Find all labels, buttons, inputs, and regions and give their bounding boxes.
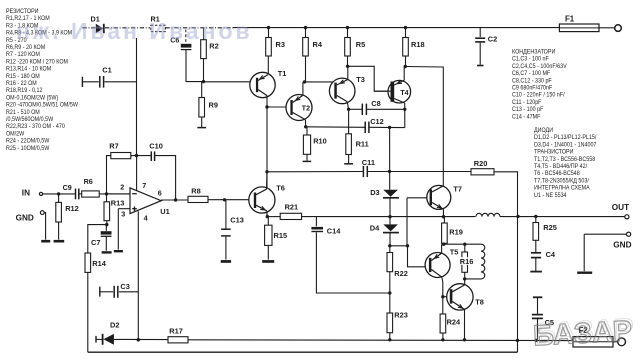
svg-text:R15: R15 (274, 231, 288, 240)
svg-text:D4: D4 (370, 224, 380, 233)
svg-text:/0,5W/560ОМ/0,5W: /0,5W/560ОМ/0,5W (6, 117, 54, 123)
svg-text:C8,C12 - 330 pF: C8,C12 - 330 pF (512, 78, 552, 84)
svg-text:R23: R23 (394, 311, 408, 320)
svg-text:C13 - 100 pF: C13 - 100 pF (512, 107, 544, 113)
svg-text:C10: C10 (149, 141, 163, 150)
svg-text:D3: D3 (370, 188, 379, 197)
svg-text:C3: C3 (120, 282, 129, 291)
svg-text:ИНТЕГРАЛНА СХЕМА: ИНТЕГРАЛНА СХЕМА (534, 185, 590, 191)
svg-text:нж. Иван Иванов: нж. Иван Иванов (16, 18, 253, 44)
svg-text:C11 - 120pF: C11 - 120pF (512, 100, 542, 106)
svg-text:GND: GND (16, 213, 34, 222)
svg-text:R5: R5 (356, 40, 365, 49)
svg-text:ОМ-0,16ОМ/2W (5W): ОМ-0,16ОМ/2W (5W) (6, 95, 58, 101)
svg-text:C7: C7 (91, 238, 100, 247)
svg-text:R18: R18 (411, 40, 425, 49)
svg-text:R25: R25 (543, 223, 557, 232)
svg-text:R22,R23 - 370 ОМ - 470: R22,R23 - 370 ОМ - 470 (6, 124, 65, 130)
svg-text:C14 - 47MF: C14 - 47MF (512, 114, 541, 120)
svg-text:C6,C7 - 100 MF: C6,C7 - 100 MF (512, 71, 551, 77)
svg-text:КОНДЕНЗАТОРИ: КОНДЕНЗАТОРИ (512, 49, 555, 55)
svg-text:R11: R11 (356, 139, 369, 148)
svg-text:РЕЗИСТОРИ: РЕЗИСТОРИ (6, 9, 39, 15)
svg-text:C1,C3 - 100 nF: C1,C3 - 100 nF (512, 56, 549, 62)
svg-text:7: 7 (142, 181, 146, 190)
svg-text:R3: R3 (276, 40, 285, 49)
svg-text:C4: C4 (546, 250, 556, 259)
svg-text:C11: C11 (362, 158, 375, 167)
svg-text:R12: R12 (65, 204, 79, 213)
svg-text:ДИОДИ: ДИОДИ (534, 128, 553, 134)
svg-text:T6: T6 (276, 183, 285, 192)
svg-text:R24: R24 (447, 318, 461, 327)
svg-text:T1: T1 (278, 69, 287, 78)
svg-text:T7: T7 (453, 184, 462, 193)
svg-text:R19: R19 (449, 228, 463, 237)
svg-text:ОМ/2W: ОМ/2W (6, 131, 25, 137)
svg-text:R6,R9 - 20 КОМ: R6,R9 - 20 КОМ (6, 45, 45, 51)
svg-text:C10 - 220nF / 150 nF/: C10 - 220nF / 150 nF/ (512, 92, 565, 98)
svg-text:T1,T2,T3 - BC556-BC558: T1,T2,T3 - BC556-BC558 (534, 156, 596, 162)
svg-text:БАЗАР: БАЗАР (534, 313, 635, 350)
svg-text:R25 - 10ОМ/0,5W: R25 - 10ОМ/0,5W (6, 145, 50, 151)
svg-text:R8: R8 (191, 186, 200, 195)
svg-text:C2: C2 (488, 34, 497, 43)
svg-text:C9 680nF/470nF: C9 680nF/470nF (512, 85, 553, 91)
svg-text:R13: R13 (111, 198, 125, 207)
svg-text:R20 -470ОМ/0,5W/51 ОМ/5W: R20 -470ОМ/0,5W/51 ОМ/5W (6, 102, 78, 108)
svg-text:C8: C8 (371, 99, 380, 108)
svg-text:IN: IN (22, 188, 30, 197)
svg-text:T2: T2 (302, 106, 310, 113)
svg-text:R9: R9 (209, 101, 218, 110)
svg-text:R16 - 22 ОМ: R16 - 22 ОМ (6, 81, 37, 87)
svg-text:C1: C1 (102, 65, 111, 74)
svg-text:C14: C14 (327, 226, 341, 235)
svg-text:GND: GND (613, 241, 631, 250)
svg-text:R15 - 180 ОМ: R15 - 180 ОМ (6, 73, 40, 79)
svg-text:T4: T4 (400, 90, 408, 97)
svg-text:T7,T8-2N3055/КД 503/: T7,T8-2N3055/КД 503/ (534, 178, 589, 184)
svg-text:R10: R10 (313, 137, 327, 146)
svg-text:C12: C12 (370, 117, 384, 126)
svg-text:R24 - 22ОМ/0,5W: R24 - 22ОМ/0,5W (6, 138, 50, 144)
svg-text:T4,T5 - BD446/ПР 42/: T4,T5 - BD446/ПР 42/ (534, 164, 587, 170)
svg-text:R17: R17 (169, 327, 183, 336)
svg-text:ТРАНЗИСТОРИ: ТРАНЗИСТОРИ (534, 149, 573, 155)
svg-text:U1: U1 (160, 207, 169, 216)
svg-text:R21 - 510 ОМ: R21 - 510 ОМ (6, 109, 40, 115)
svg-text:R7: R7 (109, 142, 118, 151)
svg-text:C9: C9 (63, 183, 72, 192)
svg-text:U1 - NE 5534: U1 - NE 5534 (534, 192, 567, 198)
svg-text:R7 - 120 КОМ: R7 - 120 КОМ (6, 52, 40, 58)
svg-text:3: 3 (121, 210, 125, 219)
svg-text:R22: R22 (394, 269, 408, 278)
svg-text:F1: F1 (565, 14, 575, 23)
svg-text:R16: R16 (460, 257, 474, 266)
svg-text:D3,D4 - 1N4001 - 1N4007: D3,D4 - 1N4001 - 1N4007 (534, 142, 596, 148)
svg-text:T3: T3 (356, 75, 365, 84)
svg-text:6: 6 (158, 188, 162, 197)
svg-text:2: 2 (120, 182, 124, 191)
svg-text:4: 4 (144, 213, 148, 222)
svg-text:OUT: OUT (612, 203, 629, 212)
svg-text:C2,C4,C5 - 100nF/63V: C2,C4,C5 - 100nF/63V (512, 64, 567, 70)
svg-text:R21: R21 (285, 202, 299, 211)
svg-text:T5: T5 (450, 248, 459, 257)
svg-text:C13: C13 (230, 216, 244, 225)
svg-text:R14: R14 (92, 259, 106, 268)
svg-text:T6 - BC546-BC548: T6 - BC546-BC548 (534, 171, 580, 177)
svg-text:D2: D2 (110, 321, 119, 330)
svg-text:D1,D2 - PL13/PL12-PL15/: D1,D2 - PL13/PL12-PL15/ (534, 135, 597, 141)
svg-text:R6: R6 (84, 177, 93, 186)
svg-text:R4: R4 (313, 40, 323, 49)
svg-text:R12 -220 КОМ / 270 КОМ: R12 -220 КОМ / 270 КОМ (6, 59, 68, 65)
svg-text:T8: T8 (475, 298, 484, 307)
svg-text:R20: R20 (474, 159, 488, 168)
svg-text:R18,R19 - 0,12: R18,R19 - 0,12 (6, 88, 42, 94)
svg-text:R13,R14 - 10 КОМ: R13,R14 - 10 КОМ (6, 66, 51, 72)
